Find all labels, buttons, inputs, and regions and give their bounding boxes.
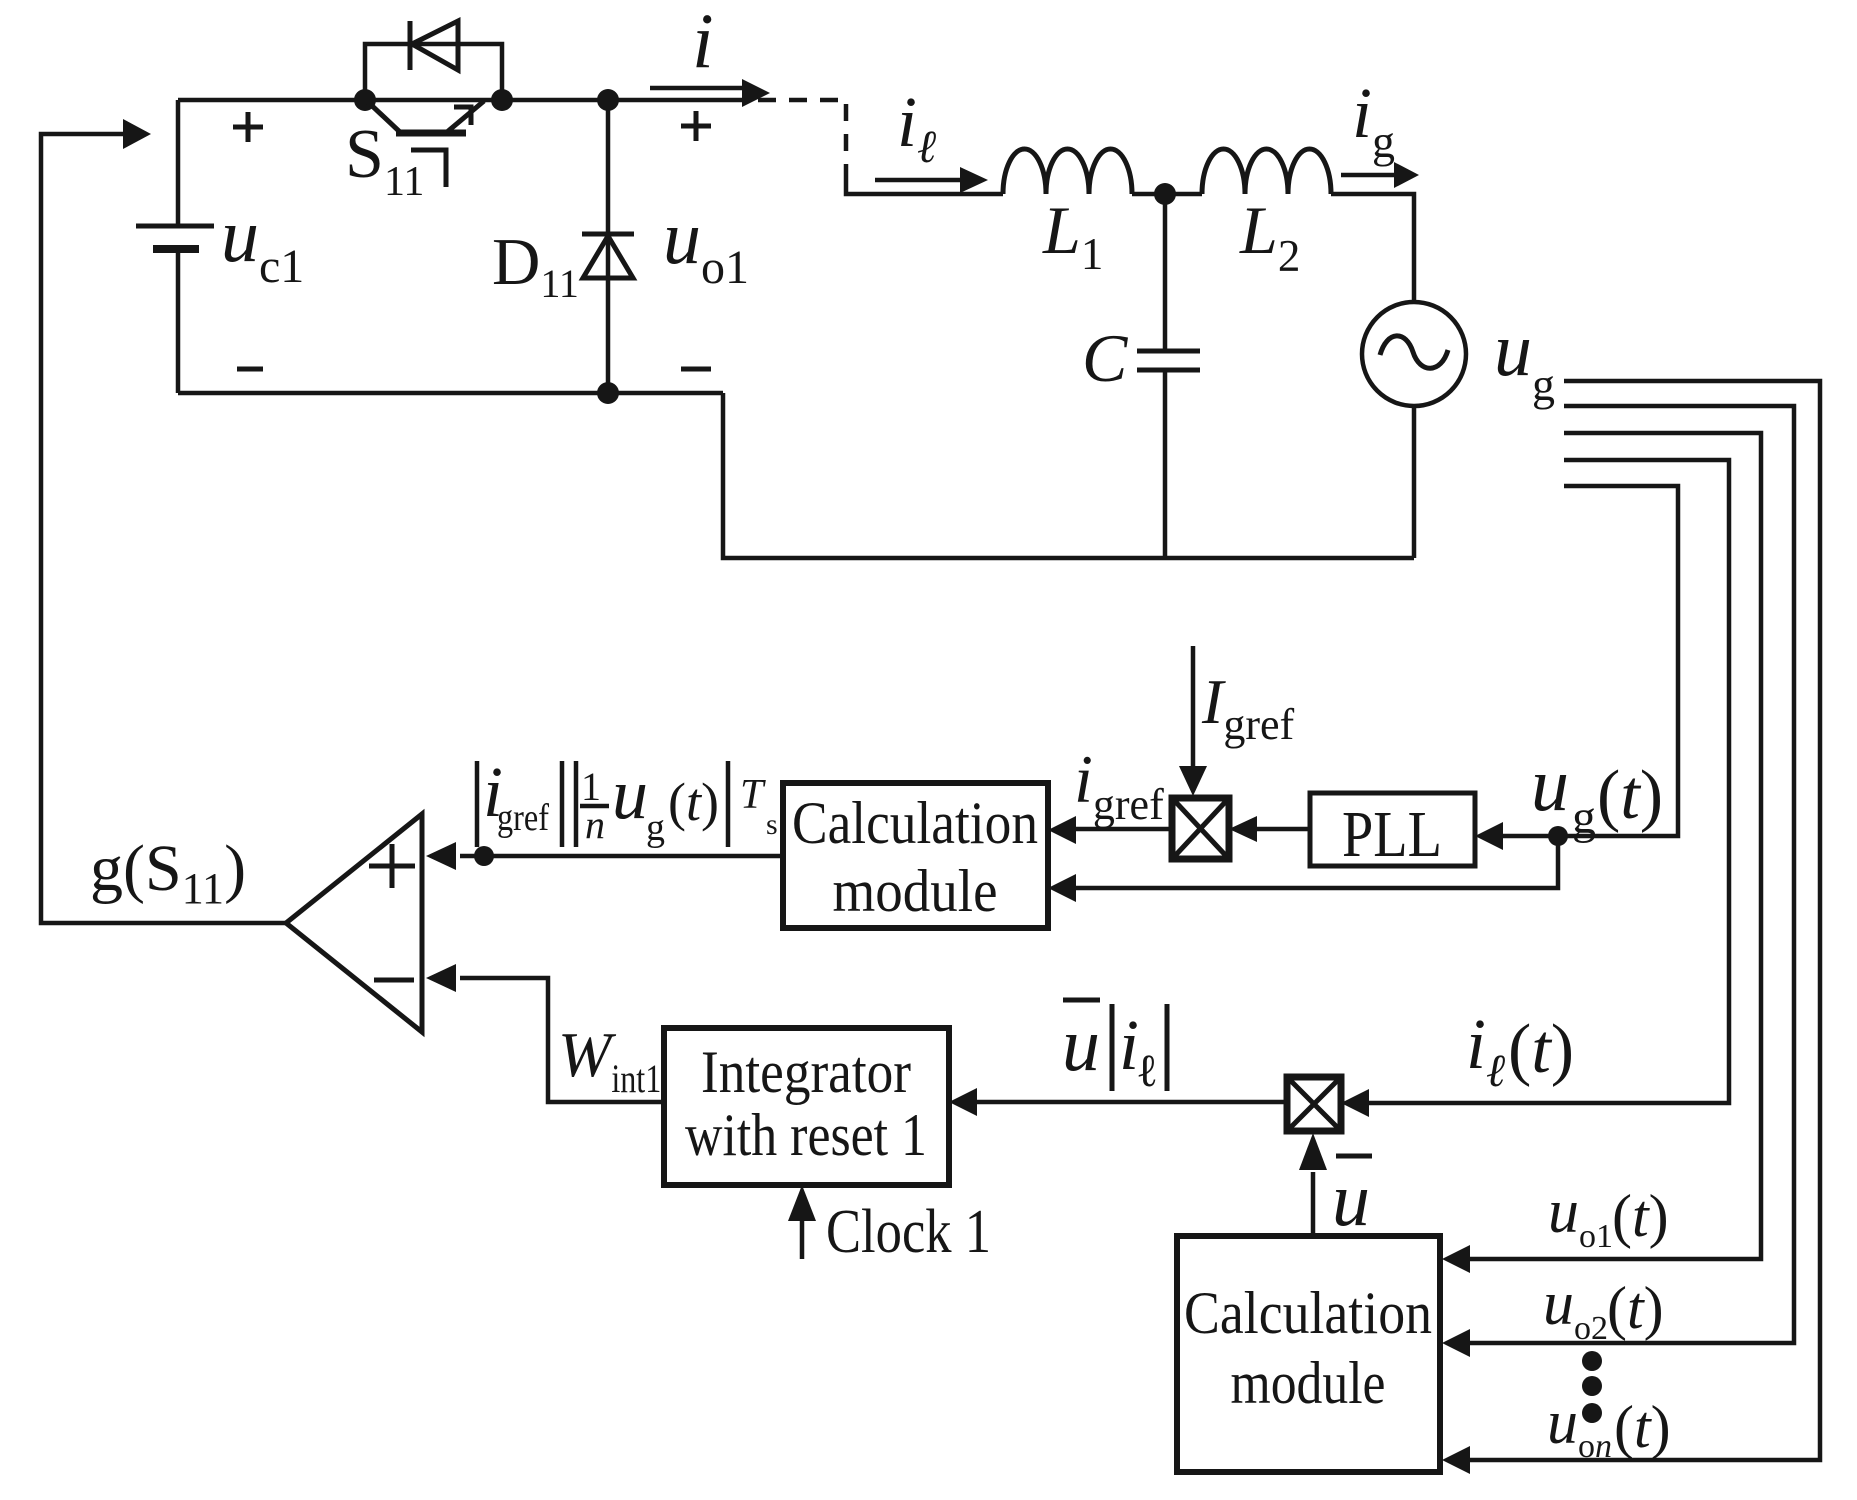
svg-text:with reset 1: with reset 1 (685, 1102, 927, 1168)
svg-text:module: module (1231, 1350, 1386, 1416)
svg-text:Igref: Igref (1201, 666, 1294, 749)
svg-text:uo1: uo1 (1548, 1178, 1613, 1255)
svg-text:iℓ: iℓ (897, 82, 937, 172)
transistor S11 body (368, 101, 484, 187)
arrowhead into comparator plus (426, 842, 456, 870)
svg-text:(t): (t) (1508, 1011, 1574, 1088)
svg-text:gref: gref (497, 797, 549, 839)
AC source u_g circle (1362, 302, 1466, 406)
current arrow i_l (875, 167, 988, 193)
wire ubar up from calc2 (1311, 1172, 1316, 1236)
dashed wire vertical (844, 104, 849, 172)
sense wire bundle line 3 (1470, 433, 1761, 1259)
wire bottom rail (178, 391, 723, 396)
wire L2 to source (1331, 194, 1414, 302)
arrowhead into PLL (1475, 822, 1503, 850)
label formula igref ug Ts (477, 752, 778, 849)
svg-text:Calculation: Calculation (792, 790, 1038, 856)
comparator plus (369, 844, 415, 888)
node J1 (354, 89, 376, 111)
svg-text:(t): (t) (1607, 1275, 1664, 1341)
label ubar iL (1062, 1000, 1167, 1096)
current arrow i (650, 79, 770, 107)
svg-text:uo1: uo1 (663, 196, 749, 294)
wire L1 to L2 (1132, 192, 1202, 197)
wire PLL to multiplier1 (1257, 827, 1310, 832)
svg-text:uc1: uc1 (221, 194, 304, 293)
minus sign u_o1 (681, 367, 711, 372)
svg-text:(t): (t) (1612, 1183, 1669, 1249)
arrowhead into calc2 uo2 (1442, 1329, 1470, 1357)
arrowhead into multiplier1 right (1229, 816, 1257, 842)
svg-text:(t): (t) (1614, 1394, 1671, 1460)
svg-text:Integrator: Integrator (701, 1039, 911, 1105)
sense wire bundle line 2 (1470, 406, 1794, 1343)
PLL box (1310, 793, 1475, 866)
node J6 (474, 846, 494, 866)
dashed wire (758, 98, 846, 103)
label ubar (1332, 1156, 1372, 1242)
AC source bottom lead (1412, 406, 1417, 558)
calculation module 2 box (1177, 1236, 1440, 1472)
node J5 (1154, 183, 1176, 205)
plus sign u_o1 (681, 111, 711, 141)
svg-text:L1: L1 (1042, 192, 1103, 279)
svg-text:u: u (612, 754, 648, 834)
sense wire bundle line 4 (1369, 460, 1729, 1103)
arrowhead into comparator minus (426, 964, 456, 992)
svg-text:Clock 1: Clock 1 (826, 1198, 991, 1266)
inductor L1 (1003, 149, 1132, 194)
svg-text:L2: L2 (1239, 192, 1300, 281)
arrowhead into multiplier2 right (1341, 1089, 1369, 1117)
svg-text:g: g (646, 807, 665, 849)
svg-text:uo2: uo2 (1543, 1270, 1608, 1347)
wire diode stub left (365, 44, 502, 100)
wire multiplier2 to integrator (977, 1100, 1287, 1105)
sense wire bundle line 5 (1558, 486, 1678, 836)
svg-text:PLL: PLL (1342, 798, 1442, 871)
svg-text:u: u (1062, 1003, 1100, 1087)
antiparallel diode of S11 (410, 21, 458, 70)
svg-text:n: n (585, 802, 605, 847)
comparator triangle (286, 814, 422, 1032)
svg-text:g: g (1572, 791, 1596, 844)
inductor L2 (1202, 149, 1331, 194)
svg-text:i: i (692, 0, 714, 84)
capacitor C (1137, 351, 1200, 370)
svg-text:u: u (1332, 1158, 1370, 1242)
svg-text:C: C (1082, 320, 1128, 396)
svg-text:module: module (833, 858, 998, 924)
multiplier M2 (1287, 1077, 1341, 1131)
node J7 ug (1548, 826, 1568, 846)
battery minus sign (237, 367, 263, 372)
comparator minus (374, 978, 414, 983)
ellipsis dots (1582, 1351, 1602, 1423)
svg-text:g(S11): g(S11) (90, 832, 246, 913)
svg-text:s: s (766, 808, 778, 841)
svg-text:ug: ug (1494, 308, 1555, 410)
feedback wire g(S11) (41, 134, 286, 923)
svg-text:igref: igref (1074, 741, 1164, 829)
arrowhead into calc1 input2 (1048, 874, 1076, 902)
svg-text:(t): (t) (1597, 757, 1663, 834)
svg-text:u: u (1531, 743, 1569, 827)
AC source sine (1380, 336, 1448, 368)
diode D11 vertical wire (606, 100, 611, 393)
wire battery left vertical (176, 100, 181, 226)
arrowhead into integrator (949, 1088, 977, 1116)
svg-text:Wint1: Wint1 (558, 1019, 661, 1101)
clock 1 arrow (788, 1185, 816, 1259)
wire top rail (178, 98, 746, 103)
node J3 (597, 89, 619, 111)
capacitor C wire top (1163, 194, 1168, 349)
arrowhead into multiplier2 bottom (1299, 1133, 1327, 1170)
arrowhead into calc2 uon (1442, 1446, 1470, 1474)
diode D11 (582, 234, 634, 278)
integrator box (664, 1028, 949, 1185)
svg-text:uon: uon (1547, 1389, 1612, 1465)
wire comparator plus input (460, 854, 783, 859)
sense wire bundle line 1 (1470, 381, 1820, 1460)
wire ug branch to calc1 input2 (1076, 836, 1558, 888)
arrowhead into calc2 uo1 (1442, 1245, 1470, 1273)
svg-text:(t): (t) (668, 772, 719, 832)
svg-text:D11: D11 (492, 225, 579, 306)
svg-text:Calculation: Calculation (1184, 1280, 1432, 1346)
arrowhead into calc1 input1 (1048, 816, 1076, 844)
battery plus sign (233, 112, 263, 142)
multiplier M1 (1172, 798, 1229, 859)
battery B1 (136, 226, 214, 393)
svg-text:S11: S11 (345, 116, 424, 205)
svg-text:T: T (740, 772, 766, 818)
calculation module 1 box (783, 783, 1048, 928)
node J2 (491, 89, 513, 111)
svg-text:ℓ: ℓ (1136, 1045, 1158, 1096)
svg-text:iℓ: iℓ (1466, 1004, 1506, 1096)
feedback arrowhead (123, 119, 151, 149)
node J4 (597, 382, 619, 404)
wire multiplier1 to calc1 (1076, 827, 1172, 832)
wire to L1 (846, 172, 1003, 194)
wire comparator minus input (460, 978, 664, 1102)
current arrow i_g (1341, 162, 1419, 188)
capacitor C wire bottom (1163, 372, 1168, 558)
svg-text:ig: ig (1352, 73, 1395, 167)
wire bottom return (723, 393, 1414, 558)
wire ug node to PLL (1503, 834, 1558, 839)
input I_gref arrow (1179, 646, 1207, 796)
